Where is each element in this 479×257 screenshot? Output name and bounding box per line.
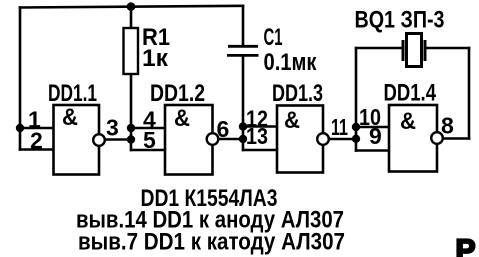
wire pin 1 input xyxy=(20,127,54,130)
node C1 / pin 12 xyxy=(239,122,247,130)
wire R1 top lead xyxy=(130,7,133,29)
svg-text:DD1.1: DD1.1 xyxy=(48,80,97,107)
crystal BQ1 xyxy=(403,34,425,67)
gate DD1.4 xyxy=(389,105,443,172)
node pin 11 / pin 9 bar xyxy=(352,135,360,143)
wire left vertical xyxy=(19,8,22,150)
svg-text:1к: 1к xyxy=(142,45,169,72)
wire BQ1 left lead xyxy=(356,47,402,50)
wire pin 9 input xyxy=(356,149,389,152)
svg-text:11: 11 xyxy=(331,114,348,140)
wire pin 8 output xyxy=(437,137,469,140)
wire pin 11 output xyxy=(323,138,356,141)
wire C1 bottom lead to DD1.3 input bar xyxy=(242,56,245,150)
svg-text:&: & xyxy=(174,105,190,132)
node BQ1 / pin 10 xyxy=(352,123,360,131)
wire pin 3 output xyxy=(99,138,131,141)
svg-text:5: 5 xyxy=(143,127,156,153)
gate DD1.3 xyxy=(277,106,329,173)
node R1 / pin 4 xyxy=(127,124,135,132)
wire pin 5 input xyxy=(131,149,165,152)
wire pin 13 input xyxy=(243,149,277,152)
svg-text:Р: Р xyxy=(456,234,476,257)
gate DD1.2 xyxy=(165,105,218,175)
wire right vertical xyxy=(468,48,471,139)
wire BQ1 right lead xyxy=(427,47,469,50)
node left vertical / pin 1 xyxy=(16,124,24,132)
node pin 6 / pin 13 bar xyxy=(239,135,247,143)
svg-text:&: & xyxy=(284,107,300,134)
svg-text:6: 6 xyxy=(217,116,230,142)
svg-text:13: 13 xyxy=(246,123,268,149)
svg-text:&: & xyxy=(62,104,78,131)
wire pin 4 input xyxy=(131,127,165,130)
svg-text:2: 2 xyxy=(30,128,43,154)
svg-text:BQ1 ЗП-3: BQ1 ЗП-3 xyxy=(355,7,445,34)
svg-text:0.1мк: 0.1мк xyxy=(264,49,318,76)
svg-text:выв.7 DD1 к катоду АЛ307: выв.7 DD1 к катоду АЛ307 xyxy=(78,229,345,256)
gate DD1.1 xyxy=(54,104,105,175)
capacitor C1 xyxy=(227,46,259,55)
wire top rail xyxy=(20,6,243,8)
wire pin 6 output xyxy=(213,138,244,141)
node top rail / R1 xyxy=(127,2,136,11)
wire R1 bottom lead to DD1.2 input bar xyxy=(130,74,133,150)
wire pin 2 input xyxy=(20,148,54,151)
resistor R1 xyxy=(124,28,139,74)
wire C1 top lead xyxy=(242,7,245,46)
svg-text:DD1.4: DD1.4 xyxy=(384,80,437,107)
svg-text:DD1.2: DD1.2 xyxy=(150,80,205,107)
svg-text:DD1.3: DD1.3 xyxy=(272,80,323,107)
node pin 3 / pin 5 bar xyxy=(127,135,135,143)
svg-text:C1: C1 xyxy=(264,24,283,51)
wire pin 12 input xyxy=(243,125,277,128)
svg-text:&: & xyxy=(400,108,416,135)
svg-text:8: 8 xyxy=(441,113,454,139)
svg-text:3: 3 xyxy=(106,115,119,141)
svg-text:9: 9 xyxy=(369,123,382,149)
wire pin 10 input xyxy=(356,126,389,129)
wire BQ1 left vertical xyxy=(355,48,358,151)
